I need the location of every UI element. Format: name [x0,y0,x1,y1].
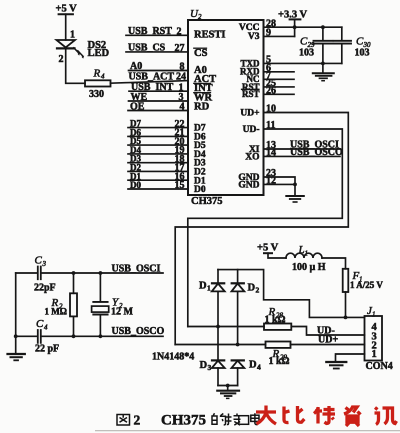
svg-text:1: 1 [207,284,211,293]
capacitor C30 [334,27,371,63]
IC left pin labels [194,30,226,196]
IC right pin labels [238,23,260,191]
node OE [128,102,188,113]
node junction [216,325,220,329]
svg-text:D0: D0 [194,185,206,195]
svg-text:1: 1 [70,30,75,41]
connector J1 CON4 [365,305,393,372]
svg-text:1 MΩ: 1 MΩ [45,307,67,317]
wire connector pin1 to ground [336,354,365,361]
IC U2 CH375 [188,8,264,207]
svg-text:USB_ACT: USB_ACT [129,71,175,82]
svg-text:12 M: 12 M [111,307,134,318]
wire [345,292,347,317]
svg-text:15: 15 [175,180,185,191]
node junction [236,343,240,347]
resistor R28 [264,306,291,330]
wire R29 to connector pin2 [291,344,365,346]
svg-text:CS: CS [194,48,208,59]
diode D1 [199,270,225,327]
caption black: 图 2 CH375 的接口电路 [117,413,259,429]
svg-text:4: 4 [44,324,48,332]
node USB_OSCO pin14 [264,147,344,158]
svg-text:LED: LED [88,48,110,59]
+5V supply top-left [56,4,78,15]
node D4 [128,145,188,156]
svg-text:2: 2 [59,54,64,65]
wire diode bottom rail [218,385,238,387]
svg-text:C: C [36,318,44,330]
node junction [226,384,230,388]
svg-text:C: C [35,255,43,267]
wire [111,81,189,84]
ground [326,362,346,369]
svg-text:GND: GND [238,181,259,191]
wire R28 to connector pin3 [291,327,364,336]
wire VBUS to connector [218,270,365,318]
svg-text:4: 4 [101,73,105,81]
node D2 [128,163,188,174]
wire UD- from pin11 [188,129,342,327]
wire pin25 [264,86,295,88]
wire UD+ rail [175,344,265,346]
svg-text:D: D [199,280,207,291]
svg-text:USB_OSCI: USB_OSCI [112,263,161,274]
svg-text:2: 2 [134,413,141,428]
svg-text:1 kΩ: 1 kΩ [265,315,286,326]
node junction [14,334,18,338]
svg-text:D: D [200,360,208,371]
node WE [129,92,189,103]
svg-text:100 µ H: 100 µ H [292,262,326,273]
wire [66,48,85,83]
svg-text:3: 3 [208,363,212,372]
ground [217,386,239,399]
svg-text:+5 V: +5 V [257,243,279,254]
diode D3 [200,327,225,386]
svg-text:V3: V3 [248,32,260,42]
svg-text:USB_OSCO: USB_OSCO [112,326,165,337]
wire pin5 TXD [264,62,342,64]
svg-text:330: 330 [89,89,104,100]
wire [322,258,346,269]
svg-text:22 pF: 22 pF [35,344,59,355]
ground [8,354,25,360]
wire UD- rail [188,326,264,328]
svg-text:UD-: UD- [243,125,260,135]
+3.3V supply [278,9,308,36]
svg-text:CON4: CON4 [366,361,393,372]
ground [313,63,334,80]
svg-text:2: 2 [256,286,260,295]
watermark red text 大比特资讯 [256,406,397,427]
svg-text:CH375: CH375 [161,413,206,429]
svg-text:R: R [93,68,101,80]
svg-text:4: 4 [180,102,185,113]
svg-text:27: 27 [175,43,185,54]
svg-text:24: 24 [176,72,186,83]
svg-text:4: 4 [257,363,261,372]
LED DS2 [57,30,110,66]
node USB_ACT [129,71,187,82]
wire UD+ from pin10 [175,113,348,345]
node junction [344,316,348,320]
svg-text:1 A/25 V: 1 A/25 V [350,280,383,290]
node D0 [128,180,188,191]
svg-text:RESTI: RESTI [194,30,226,41]
wire pin6 [264,71,295,73]
svg-text:RD: RD [194,102,210,113]
wire pin28 [264,26,342,28]
node D6 [128,127,188,138]
svg-text:RST: RST [242,89,260,99]
svg-text:CH375: CH375 [191,196,223,207]
svg-text:UD+: UD+ [240,109,259,119]
svg-text:2: 2 [177,27,182,38]
wire pin7 [264,78,295,80]
+5V supply bottom [257,243,286,258]
wire USB_OSCO rail [16,326,165,337]
diode D2 [232,270,260,345]
svg-text:3: 3 [42,260,47,268]
node A0 [129,61,189,73]
svg-text:D: D [248,282,256,293]
svg-text:UD+: UD+ [318,335,338,346]
node D1 [128,171,188,182]
bottom scan line [95,430,400,432]
wire pin23 pin12 to ground [264,177,297,195]
ground [286,196,304,202]
node D5 [128,136,188,147]
node USB_CS [126,42,188,54]
capacitor C3 [34,255,56,294]
node USB_INT [129,82,188,93]
svg-text:2: 2 [198,13,202,21]
node D3 [128,154,188,165]
wire left vertical to ground [15,273,17,353]
svg-text:1N4148*4: 1N4148*4 [152,352,194,363]
svg-text:22pF: 22pF [34,283,56,294]
node USB_RST [126,26,188,38]
svg-text:1: 1 [372,311,376,319]
node USB_OSCI pin13 [264,140,341,151]
crystal Y2 [92,271,134,338]
capacitor C4 [35,318,59,355]
node junction [293,25,297,29]
wire pin9 [264,35,295,37]
svg-text:103: 103 [355,48,370,59]
svg-text:1: 1 [372,349,377,360]
IC right pin numbers [266,18,276,186]
fuse F1 [343,269,384,292]
resistor R4 [85,68,111,101]
wire pin26 [264,93,295,95]
wire [65,14,67,40]
svg-text:XO: XO [245,153,259,163]
svg-text:D: D [249,359,257,370]
inductor L1 [286,244,326,273]
svg-text:1 kΩ: 1 kΩ [269,356,290,367]
svg-text:1: 1 [305,250,309,258]
capacitor C29 [299,25,332,63]
wire USB_OSCI rail [16,263,163,274]
node D7 [128,119,188,130]
svg-text:103: 103 [299,48,314,59]
svg-text:+5 V: +5 V [56,4,78,15]
resistor R29 [266,342,291,368]
node junction [321,62,325,66]
resistor R2 [45,271,78,338]
diode D4 [232,359,262,385]
